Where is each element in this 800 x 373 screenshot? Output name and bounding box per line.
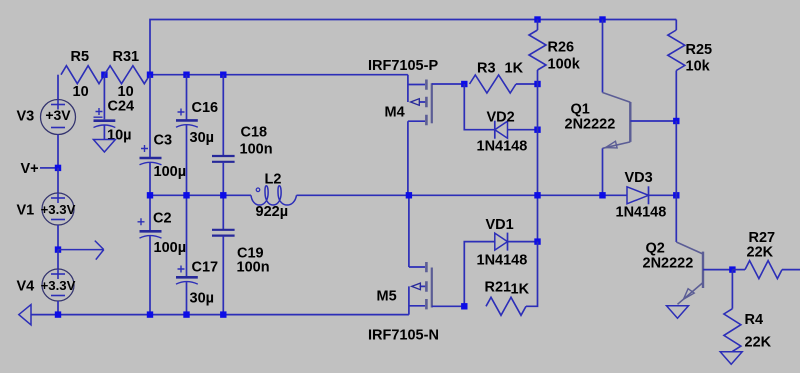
M5 channel bar segments: [425, 262, 428, 309]
junction Q2 base / R27 / R4: [729, 266, 735, 272]
svg-text:V+: V+: [21, 161, 39, 177]
wire bottom rail: [31, 314, 409, 316]
svg-text:C3: C3: [154, 133, 173, 149]
svg-text:1N4148: 1N4148: [616, 205, 667, 221]
wire R25 column: [675, 121, 677, 195]
port arrow left at bottom rail: [19, 305, 31, 325]
plus mark C2: [138, 218, 145, 225]
ground below C24: [93, 140, 115, 153]
svg-text:VD3: VD3: [625, 170, 653, 186]
wire top supply rail: [150, 20, 676, 75]
Q2 base wire: [703, 269, 732, 271]
junction VD3 cathode node: [673, 192, 679, 198]
svg-text:10µ: 10µ: [107, 128, 131, 144]
svg-text:VD1: VD1: [486, 217, 514, 233]
svg-text:100µ: 100µ: [154, 164, 187, 180]
svg-text:R21: R21: [485, 280, 512, 296]
junction mid rail at C16/C17: [183, 192, 189, 198]
svg-text:30µ: 30µ: [190, 291, 214, 307]
junction top rail / Q1 collector: [599, 16, 605, 22]
svg-text:M5: M5: [377, 289, 397, 305]
voltage source V3: [57, 75, 59, 100]
capacitor C17 (polarized): [186, 195, 188, 276]
junction bottom rail at C17: [183, 311, 189, 317]
svg-text:C18: C18: [241, 125, 268, 141]
svg-text:10k: 10k: [686, 59, 711, 75]
M4 gate wire: [432, 83, 465, 85]
junction top rail / R26: [534, 16, 540, 22]
junction R5/R31/C24: [101, 72, 107, 78]
transistor M5 IRF7105-N: [409, 195, 426, 314]
svg-text:M4: M4: [385, 105, 405, 121]
junction V4 bottom / bottom rail: [55, 311, 61, 317]
capacitor C19: [222, 195, 224, 230]
junction Q1 base / R25 node: [673, 118, 679, 124]
phase dot L2: [256, 188, 260, 192]
svg-text:Q1: Q1: [571, 102, 590, 118]
capacitor C16 (polarized): [186, 75, 188, 120]
svg-text:1K: 1K: [505, 61, 524, 77]
M4 gate bar: [431, 83, 433, 123]
junction mid rail at C18/C19: [220, 192, 226, 198]
resistor R3: [470, 75, 517, 93]
svg-text:30µ: 30µ: [190, 130, 214, 146]
svg-text:R5: R5: [71, 49, 90, 65]
svg-text:L2: L2: [265, 172, 282, 188]
wire drive column: [537, 84, 539, 242]
capacitor C18: [222, 75, 224, 156]
plus mark C3: [141, 145, 148, 152]
svg-text:100n: 100n: [237, 260, 270, 276]
svg-text:22K: 22K: [745, 335, 772, 351]
resistor R26: [537, 20, 539, 31]
Q2 emitter arrow: [684, 289, 695, 300]
svg-text:100n: 100n: [240, 142, 273, 158]
M5 gate wire: [432, 305, 465, 307]
inductor L2: [251, 186, 297, 205]
junction below V1: [55, 246, 61, 252]
junction bottom rail at C19: [220, 311, 226, 317]
svg-text:C2: C2: [153, 211, 172, 227]
svg-text:R25: R25: [686, 42, 713, 58]
svg-text:IRF7105-P: IRF7105-P: [368, 58, 438, 74]
voltage source V1: [57, 168, 59, 193]
junction rail2 at C18: [220, 72, 226, 78]
svg-text:922µ: 922µ: [256, 204, 289, 220]
plus mark C24: [94, 108, 103, 117]
svg-text:2N2222: 2N2222: [565, 117, 616, 133]
junction M5 gate node: [461, 303, 467, 309]
Q1 base wire: [630, 120, 676, 122]
capacitor C3 (polarized): [149, 75, 151, 157]
M4 channel bar segments: [425, 80, 428, 126]
svg-text:IRF7105-N: IRF7105-N: [368, 328, 439, 344]
junction rail2 at C16: [183, 72, 189, 78]
wire second rail to M4: [150, 74, 408, 76]
junction mid rail / Q1 emitter: [599, 192, 605, 198]
svg-text:+3.3V: +3.3V: [41, 202, 76, 217]
diode VD2: [464, 84, 495, 130]
junction bottom rail at C2: [147, 311, 153, 317]
diode VD3: [627, 187, 649, 204]
resistor R31: [104, 66, 150, 84]
wire middle switch-node rail: [150, 194, 676, 196]
plus mark C17: [178, 266, 185, 273]
transistor Q1 2N2222: [602, 20, 604, 93]
M5 body arrow: [412, 283, 421, 290]
capacitor C24 (polarized): [103, 75, 105, 120]
capacitor C2 (polarized): [149, 195, 151, 230]
svg-text:2N2222: 2N2222: [643, 256, 694, 272]
svg-text:V3: V3: [17, 109, 35, 125]
svg-text:R31: R31: [113, 49, 140, 65]
resistor R4: [731, 270, 733, 309]
svg-text:+3.3V: +3.3V: [41, 278, 76, 293]
transistor M4 IRF7105-P: [408, 75, 426, 196]
svg-text:100k: 100k: [548, 57, 581, 73]
junction V+: [55, 165, 61, 171]
svg-text:C17: C17: [192, 260, 219, 276]
resistor R27: [732, 269, 745, 271]
M5 gate bar: [431, 268, 433, 308]
resistor R5: [61, 66, 104, 84]
junction VD1 cathode node: [534, 238, 540, 244]
junction mid rail / drive column: [534, 192, 540, 198]
svg-text:R26: R26: [548, 40, 575, 56]
svg-text:+3V: +3V: [45, 107, 71, 123]
svg-text:VD2: VD2: [487, 110, 515, 126]
transistor Q2 2N2222: [675, 195, 677, 242]
voltage source V4: [57, 250, 59, 269]
svg-text:V1: V1: [17, 203, 35, 219]
svg-text:1N4148: 1N4148: [477, 139, 528, 155]
resistor R25: [675, 20, 677, 31]
svg-text:1K: 1K: [511, 282, 530, 298]
svg-text:22K: 22K: [747, 245, 774, 261]
diode VD1: [464, 242, 495, 307]
junction R3/R26 node: [534, 81, 540, 87]
resistor R21: [486, 297, 526, 315]
svg-text:C16: C16: [192, 100, 219, 116]
junction mid rail at C3/C2: [147, 192, 153, 198]
junction rail2 at C3: [147, 72, 153, 78]
ground below R4: [720, 352, 742, 365]
svg-text:10: 10: [73, 84, 89, 100]
junction VD2 cathode node: [534, 127, 540, 133]
wire V+ stub: [40, 167, 55, 169]
ground at Q2 emitter: [667, 306, 689, 319]
svg-text:R4: R4: [745, 312, 764, 328]
junction M4 gate node: [461, 81, 467, 87]
M4 body arrow: [411, 99, 420, 106]
svg-text:V4: V4: [17, 279, 35, 295]
svg-text:Q2: Q2: [646, 241, 665, 257]
svg-text:R3: R3: [477, 61, 496, 77]
port arrow right at V1/V4 node: [58, 241, 104, 260]
svg-text:C24: C24: [108, 99, 135, 115]
svg-text:100µ: 100µ: [154, 240, 187, 256]
svg-text:1N4148: 1N4148: [477, 253, 528, 269]
Q1 emitter arrow: [606, 141, 618, 148]
plus mark C16: [178, 109, 185, 116]
junction switch node at M4/M5: [406, 192, 412, 198]
